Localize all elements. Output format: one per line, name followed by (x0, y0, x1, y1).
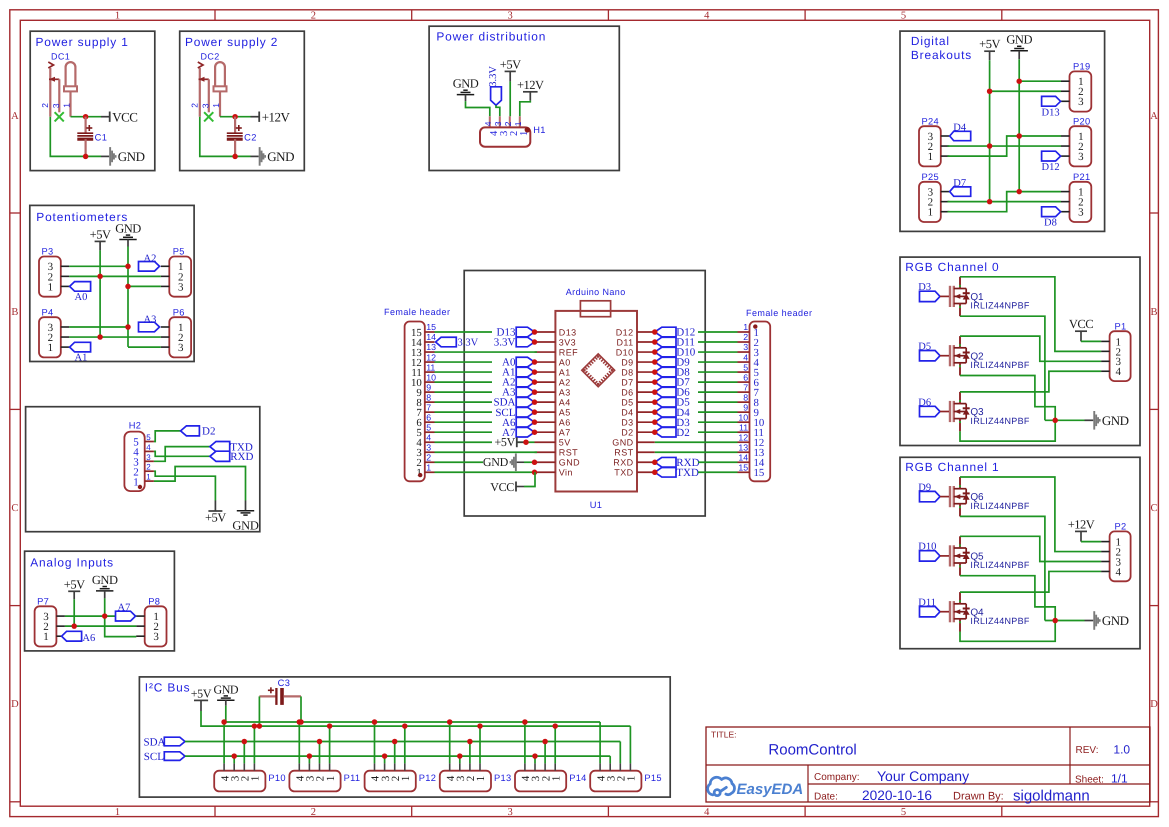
wire P13 pin3 to SCL bus (459, 756, 461, 763)
transistor Q5 internals (954, 547, 966, 549)
svg-text:1: 1 (146, 473, 151, 482)
svg-text:A2: A2 (144, 254, 157, 265)
transistor Q5 source pin (959, 563, 961, 576)
wire P14 pin1 to +5V bus (554, 726, 556, 763)
svg-text:3: 3 (51, 103, 61, 108)
svg-text:Breakouts: Breakouts (911, 48, 972, 62)
svg-text:+5V: +5V (979, 37, 1000, 51)
svg-text:Power supply 2: Power supply 2 (185, 35, 278, 49)
svg-text:Analog Inputs: Analog Inputs (30, 556, 114, 570)
svg-text:D12: D12 (616, 327, 634, 337)
svg-text:P19: P19 (1073, 62, 1090, 72)
power symbol +5V (194, 699, 208, 701)
svg-text:12: 12 (738, 432, 748, 442)
svg-text:9: 9 (426, 382, 431, 392)
wire C3 right to GND bus (300, 696, 302, 722)
junction dot (532, 470, 538, 476)
wire gnd rail (200, 117, 251, 157)
title block outline (706, 727, 1150, 802)
header P15 pin stubs (599, 763, 601, 770)
svg-text:3.3V: 3.3V (488, 66, 499, 87)
junction dot (532, 369, 538, 375)
ground symbol GND (224, 695, 228, 697)
junction dot (242, 739, 248, 745)
header P21 pin stubs (1061, 191, 1070, 193)
svg-text:2: 2 (503, 121, 513, 126)
wire header to U1 D13 (435, 331, 493, 333)
net flag A3 (516, 387, 534, 397)
wire P3 pin3 to GND (69, 265, 128, 267)
wire D10 flag to gate (940, 555, 949, 557)
svg-text:8: 8 (743, 392, 748, 402)
svg-text:D6: D6 (621, 387, 633, 397)
wire GND vertical rail (127, 247, 129, 347)
svg-text:A6: A6 (559, 417, 571, 427)
svg-text:A: A (11, 111, 19, 122)
female header left pin stubs (425, 331, 435, 333)
svg-text:6: 6 (743, 372, 748, 382)
header P8 (145, 606, 167, 646)
svg-text:4: 4 (1115, 566, 1121, 578)
svg-text:D5: D5 (621, 397, 633, 407)
svg-text:7: 7 (743, 382, 748, 392)
svg-text:3: 3 (1078, 151, 1084, 163)
svg-text:D7: D7 (621, 377, 633, 387)
transistor Q5 gate bar (949, 545, 951, 566)
svg-text:1: 1 (115, 10, 120, 21)
svg-text:P1: P1 (1115, 321, 1127, 331)
svg-text:14: 14 (426, 332, 436, 342)
svg-text:A7: A7 (118, 602, 131, 613)
svg-text:H2: H2 (129, 421, 141, 431)
ground rail wire (1045, 419, 1085, 421)
svg-text:5: 5 (901, 10, 906, 21)
svg-text:15: 15 (426, 322, 436, 332)
wire P24 pin1 to P20 pin1 (948, 136, 1062, 156)
svg-text:2: 2 (40, 103, 50, 108)
header P3 (39, 257, 61, 297)
net flag A6 (62, 631, 82, 641)
net flag D5 (655, 397, 676, 407)
svg-text:+5V: +5V (64, 577, 85, 591)
svg-text:6: 6 (426, 412, 431, 422)
svg-text:B: B (1150, 307, 1157, 318)
junction dot (522, 719, 528, 725)
net flag D2 (181, 426, 200, 436)
svg-text:D4: D4 (621, 407, 633, 417)
net flag D7 (950, 187, 971, 196)
wire header to U1 5V row (435, 441, 493, 443)
svg-text:RoomControl: RoomControl (768, 742, 856, 759)
svg-text:D10: D10 (616, 347, 634, 357)
junction dot (652, 460, 658, 466)
wire +12V to P2 pin1 (1080, 531, 1082, 541)
svg-text:+12V: +12V (1068, 517, 1095, 531)
transistor Q1 internals (954, 288, 966, 290)
svg-text:D7: D7 (953, 178, 966, 189)
svg-text:Sheet:: Sheet: (1075, 775, 1104, 786)
junction dot (83, 114, 89, 120)
header H2 (124, 432, 144, 492)
wire VCC to P1 pin1 (1080, 331, 1082, 341)
svg-text:4: 4 (704, 807, 710, 818)
svg-text:1: 1 (400, 776, 412, 782)
svg-text:D3: D3 (621, 417, 633, 427)
net flag D11 (655, 337, 676, 347)
svg-text:IRLIZ44NPBF: IRLIZ44NPBF (970, 501, 1030, 511)
svg-text:3: 3 (1078, 96, 1084, 108)
svg-text:A2: A2 (559, 377, 571, 387)
svg-text:D9: D9 (621, 357, 633, 367)
svg-text:IRLIZ44NPBF: IRLIZ44NPBF (970, 360, 1030, 370)
svg-text:7: 7 (426, 402, 431, 412)
svg-text:C1: C1 (95, 133, 108, 143)
wire D5 flag to gate (940, 355, 949, 357)
svg-text:A: A (1150, 111, 1158, 122)
junction dot (987, 143, 993, 149)
wire P25 pin1 to P21 pin1 (948, 192, 1062, 212)
wire +5V to H1 pin2 (509, 81, 511, 116)
net flag D13 (516, 327, 534, 337)
net flag TXD (210, 442, 230, 452)
transistor Q3 gate bar (949, 401, 951, 422)
wire P10 pin1 to +5V bus (253, 726, 255, 763)
junction dot (231, 753, 237, 759)
wire P15 pin1 to +5V bus (629, 726, 631, 763)
wire D11 flag to gate (940, 611, 949, 613)
junction dot (382, 753, 388, 759)
svg-text:I²C Bus: I²C Bus (145, 681, 191, 695)
wire Q6 source to ground rail (960, 516, 1045, 620)
junction dot (532, 429, 538, 435)
wire P14 pin4 to GND bus (524, 722, 526, 763)
IC U1 Arduino Nano body (555, 311, 637, 492)
junction dot (125, 324, 131, 330)
svg-text:P15: P15 (644, 773, 661, 783)
svg-text:1: 1 (325, 776, 337, 782)
transistor Q3 drain pin (959, 392, 961, 404)
wire VCC to Vin (524, 472, 535, 486)
wire Q5 drain to P2 pin3 (960, 536, 1101, 561)
header P11 (289, 771, 340, 792)
svg-text:2: 2 (743, 332, 748, 342)
header P10 pin stubs (223, 763, 225, 770)
capacitor C1 (84, 117, 86, 133)
svg-text:Date:: Date: (814, 792, 838, 803)
wire P12 pin4 to GND bus (374, 722, 376, 763)
ground symbol GND (251, 155, 259, 157)
power symbol +5V (68, 590, 80, 592)
svg-text:Female header: Female header (384, 307, 450, 317)
junction dot (402, 723, 408, 729)
svg-text:P20: P20 (1073, 116, 1090, 126)
header H2 pin1 dot (138, 485, 142, 489)
header P11 pin stubs (298, 763, 300, 770)
svg-text:D8: D8 (1044, 218, 1057, 229)
wire P13 pin1 to +5V bus (479, 726, 481, 763)
svg-text:GND: GND (118, 149, 145, 164)
net flag D6 (655, 387, 676, 397)
svg-text:Vin: Vin (559, 468, 573, 478)
header P13 pin stubs (449, 763, 451, 770)
net flag A1 (70, 342, 91, 352)
wire D12 to right header (698, 331, 738, 333)
header P6 pin stubs (161, 326, 170, 328)
svg-text:D9: D9 (918, 482, 931, 493)
wire P13 pin4 to GND bus (449, 722, 451, 763)
header P15 (590, 771, 641, 792)
capacitor C3 (259, 695, 276, 697)
wire header to U1 Vin row (435, 471, 535, 473)
junction dot (523, 439, 529, 445)
net flag D5 (920, 351, 941, 361)
svg-text:15: 15 (754, 467, 765, 479)
power symbol +5V (208, 510, 222, 512)
net flag A0 (516, 357, 534, 367)
svg-text:D6: D6 (918, 397, 931, 408)
svg-text:2: 2 (311, 10, 316, 21)
wire +5V to bus (200, 700, 202, 711)
svg-text:GND: GND (1102, 613, 1129, 628)
wire D4 to right header (698, 411, 738, 413)
junction dot (297, 719, 303, 725)
junction dot (532, 359, 538, 365)
svg-text:VCC: VCC (490, 480, 514, 494)
transistor Q4 internals (954, 603, 966, 605)
wire GND to bus (225, 706, 227, 722)
header P3 pin stubs (61, 265, 70, 267)
svg-text:1: 1 (550, 776, 562, 782)
transistor Q4 drain pin (959, 592, 961, 604)
IC U1 pin stubs left (535, 331, 556, 333)
svg-text:1: 1 (426, 462, 431, 472)
header P24 (919, 126, 941, 166)
no-connect cross (55, 112, 64, 121)
svg-text:D10: D10 (918, 542, 936, 553)
junction dot (652, 369, 658, 375)
junction dot (532, 339, 538, 345)
net flag D8 (1042, 207, 1061, 217)
junction dot (1016, 189, 1022, 195)
svg-text:Company:: Company: (814, 772, 860, 783)
net flag D10 (920, 551, 941, 561)
logo EasyEDA (708, 777, 735, 795)
header P2 (1110, 531, 1131, 581)
svg-text:GND: GND (267, 149, 294, 164)
svg-text:15: 15 (738, 462, 748, 472)
junction dot (477, 723, 483, 729)
net flag SDA (164, 737, 185, 746)
net flag D2 (655, 427, 676, 437)
svg-text:P4: P4 (42, 307, 54, 317)
svg-text:1: 1 (115, 807, 120, 818)
svg-text:RST: RST (614, 448, 633, 458)
header P1 pin stubs (1101, 340, 1110, 342)
wire U1 to right header plain (655, 451, 738, 453)
wire D9 to right header (698, 361, 738, 363)
svg-text:Digital: Digital (911, 34, 950, 48)
junction dot (1016, 133, 1022, 139)
transistor Q5 drain pin (959, 536, 961, 548)
junction dot (532, 409, 538, 415)
svg-text:B: B (11, 307, 18, 318)
wire GND to P5 pin3 (128, 285, 161, 287)
net flag D3 (920, 291, 941, 301)
svg-text:4: 4 (1115, 366, 1121, 378)
svg-text:P10: P10 (268, 773, 285, 783)
ground symbol GND (463, 89, 467, 91)
svg-text:3: 3 (178, 342, 184, 354)
header P4 (39, 317, 61, 357)
net flag D9 (920, 491, 941, 501)
svg-text:VCC: VCC (112, 109, 137, 124)
header P6 (169, 317, 191, 357)
header P24 pin stubs (941, 135, 950, 137)
header P8 pin stubs (136, 615, 145, 617)
svg-text:Your Company: Your Company (877, 768, 969, 784)
svg-text:3: 3 (153, 631, 159, 643)
wire D10 to right header (698, 351, 738, 353)
svg-text:3: 3 (200, 103, 210, 108)
wire P4 pin3 to GND (69, 326, 128, 328)
junction dot (71, 623, 77, 629)
net flag RXD (655, 457, 676, 467)
junction dot (532, 389, 538, 395)
svg-text:C: C (1150, 503, 1157, 514)
svg-text:11: 11 (426, 362, 435, 372)
transistor Q4 gate bar (949, 601, 951, 622)
header H1 pin1 dot (525, 127, 531, 133)
ground symbol GND (1017, 45, 1021, 47)
header P14 (515, 771, 566, 792)
female header right pin1 dot (753, 324, 757, 328)
net flag RXD (210, 451, 230, 461)
wire P7 pin3 to P8 pin1 (65, 615, 136, 617)
svg-text:+5V: +5V (90, 227, 111, 241)
svg-text:DC2: DC2 (201, 52, 220, 62)
wire 3.3V to H1 pin3 (496, 105, 500, 116)
wire Q3 drain to P1 pin4 (960, 371, 1101, 392)
svg-text:TXD: TXD (614, 468, 633, 478)
net flag D13 (1042, 96, 1061, 106)
wire P3 pin2 to P5 pin2 (69, 275, 161, 277)
junction dot (532, 379, 538, 385)
section box Power supply 1 (30, 31, 155, 170)
svg-text:3.3V: 3.3V (494, 337, 516, 349)
wire Q2 drain to P1 pin3 (960, 336, 1101, 361)
wire P4 pin2 to P6 pin2 (69, 336, 161, 338)
section box H2 serial (26, 407, 260, 532)
junction dot (102, 613, 108, 619)
net flag SCL (516, 407, 534, 417)
wire gnd rail (50, 117, 101, 157)
svg-text:A3: A3 (559, 387, 571, 397)
svg-text:TITLE:: TITLE: (711, 730, 737, 740)
svg-text:3: 3 (507, 10, 512, 21)
section box Arduino (464, 271, 705, 517)
junction dot (532, 419, 538, 425)
junction dot (447, 719, 453, 725)
svg-text:5V: 5V (559, 438, 571, 448)
wire header to U1 GND row (435, 461, 484, 463)
svg-text:A6: A6 (82, 633, 95, 644)
header H2 pin stubs (145, 441, 154, 443)
header P12 (365, 771, 416, 792)
junction dot (532, 329, 538, 335)
net flag TXD (655, 467, 676, 477)
female header left (405, 322, 425, 482)
transistor Q3 source pin (959, 419, 961, 432)
net flag A2 (139, 262, 160, 272)
wire D6 flag to gate (940, 411, 949, 413)
svg-text:IRLIZ44NPBF: IRLIZ44NPBF (970, 560, 1030, 570)
junction dot (532, 460, 538, 466)
IC U1 usb connector (580, 301, 610, 317)
transistor Q1 source pin (959, 304, 961, 317)
wire P7 pin2 to P8 pin2 (65, 625, 136, 627)
junction dot (232, 154, 238, 160)
net flag A7 (516, 427, 534, 437)
transistor Q6 drain pin (959, 477, 961, 489)
junction dot (987, 199, 993, 205)
svg-text:11: 11 (739, 422, 748, 432)
svg-text:A7: A7 (559, 428, 571, 438)
wire header to U1 A0 (435, 361, 493, 363)
header P7 pin stubs (56, 615, 65, 617)
svg-text:Power supply 1: Power supply 1 (36, 35, 129, 49)
svg-text:8: 8 (426, 392, 431, 402)
bus wire SDA (185, 741, 620, 743)
junction dot (457, 753, 463, 759)
svg-text:A1: A1 (75, 353, 88, 364)
header P13 (440, 771, 491, 792)
IC U1 pin stubs right (637, 331, 655, 333)
junction dot (252, 723, 258, 729)
header P5 (169, 257, 191, 297)
junction dot (125, 284, 131, 290)
section box Analog Inputs (25, 551, 175, 651)
junction dot (1052, 618, 1058, 624)
svg-text:3: 3 (743, 342, 748, 352)
header P25 pin stubs (941, 191, 950, 193)
junction dot (1016, 78, 1022, 84)
section box RGB Channel 0 (900, 257, 1140, 445)
svg-text:RXD: RXD (230, 451, 253, 463)
header P2 pin stubs (1101, 541, 1110, 543)
svg-text:A1: A1 (559, 367, 571, 377)
svg-text:D: D (1150, 699, 1158, 710)
svg-text:P24: P24 (922, 116, 939, 126)
net flag D3 (655, 417, 676, 427)
capacitor C1 plus sign (88, 125, 90, 131)
header P12 pin stubs (374, 763, 376, 770)
wire H2 pin3 to TXD (154, 447, 210, 462)
junction dot (532, 399, 538, 405)
svg-text:D11: D11 (918, 598, 936, 609)
wire D8 to right header (698, 371, 738, 373)
wire Q1 drain to P1 pin2 (960, 277, 1101, 352)
svg-text:5: 5 (426, 422, 431, 432)
svg-text:+12V: +12V (517, 78, 544, 92)
svg-text:D2: D2 (676, 427, 689, 439)
svg-text:13: 13 (738, 442, 748, 452)
wire Q3 source to ground rail (960, 420, 1055, 441)
DC jack DC2 body (198, 62, 203, 68)
wire header to U1 A1 (435, 371, 493, 373)
wire header to U1 SCL (435, 411, 493, 413)
svg-text:sigoldmann: sigoldmann (1013, 788, 1090, 805)
junction dot (125, 264, 131, 270)
